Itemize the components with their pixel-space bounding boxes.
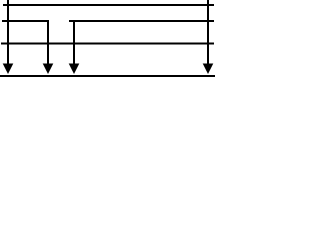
wire vertical drop 1 (left)	[7, 0, 9, 66]
wire vertical drop 2	[47, 20, 49, 66]
wire vertical drop 3	[73, 20, 75, 66]
arrowhead 4 (right, pointing down)	[203, 64, 214, 75]
arrowhead 1 (left, pointing down)	[3, 64, 14, 75]
wire top horizontal rail	[3, 4, 214, 6]
wire vertical drop 4 (right)	[207, 0, 209, 66]
wire second rail left segment	[2, 20, 49, 22]
wire bottom horizontal rail	[0, 75, 215, 77]
arrowhead 2 (pointing down)	[43, 64, 54, 75]
wire second rail right segment	[69, 20, 214, 22]
wire middle horizontal rail	[1, 43, 214, 45]
arrowhead 3 (pointing down)	[69, 64, 80, 75]
